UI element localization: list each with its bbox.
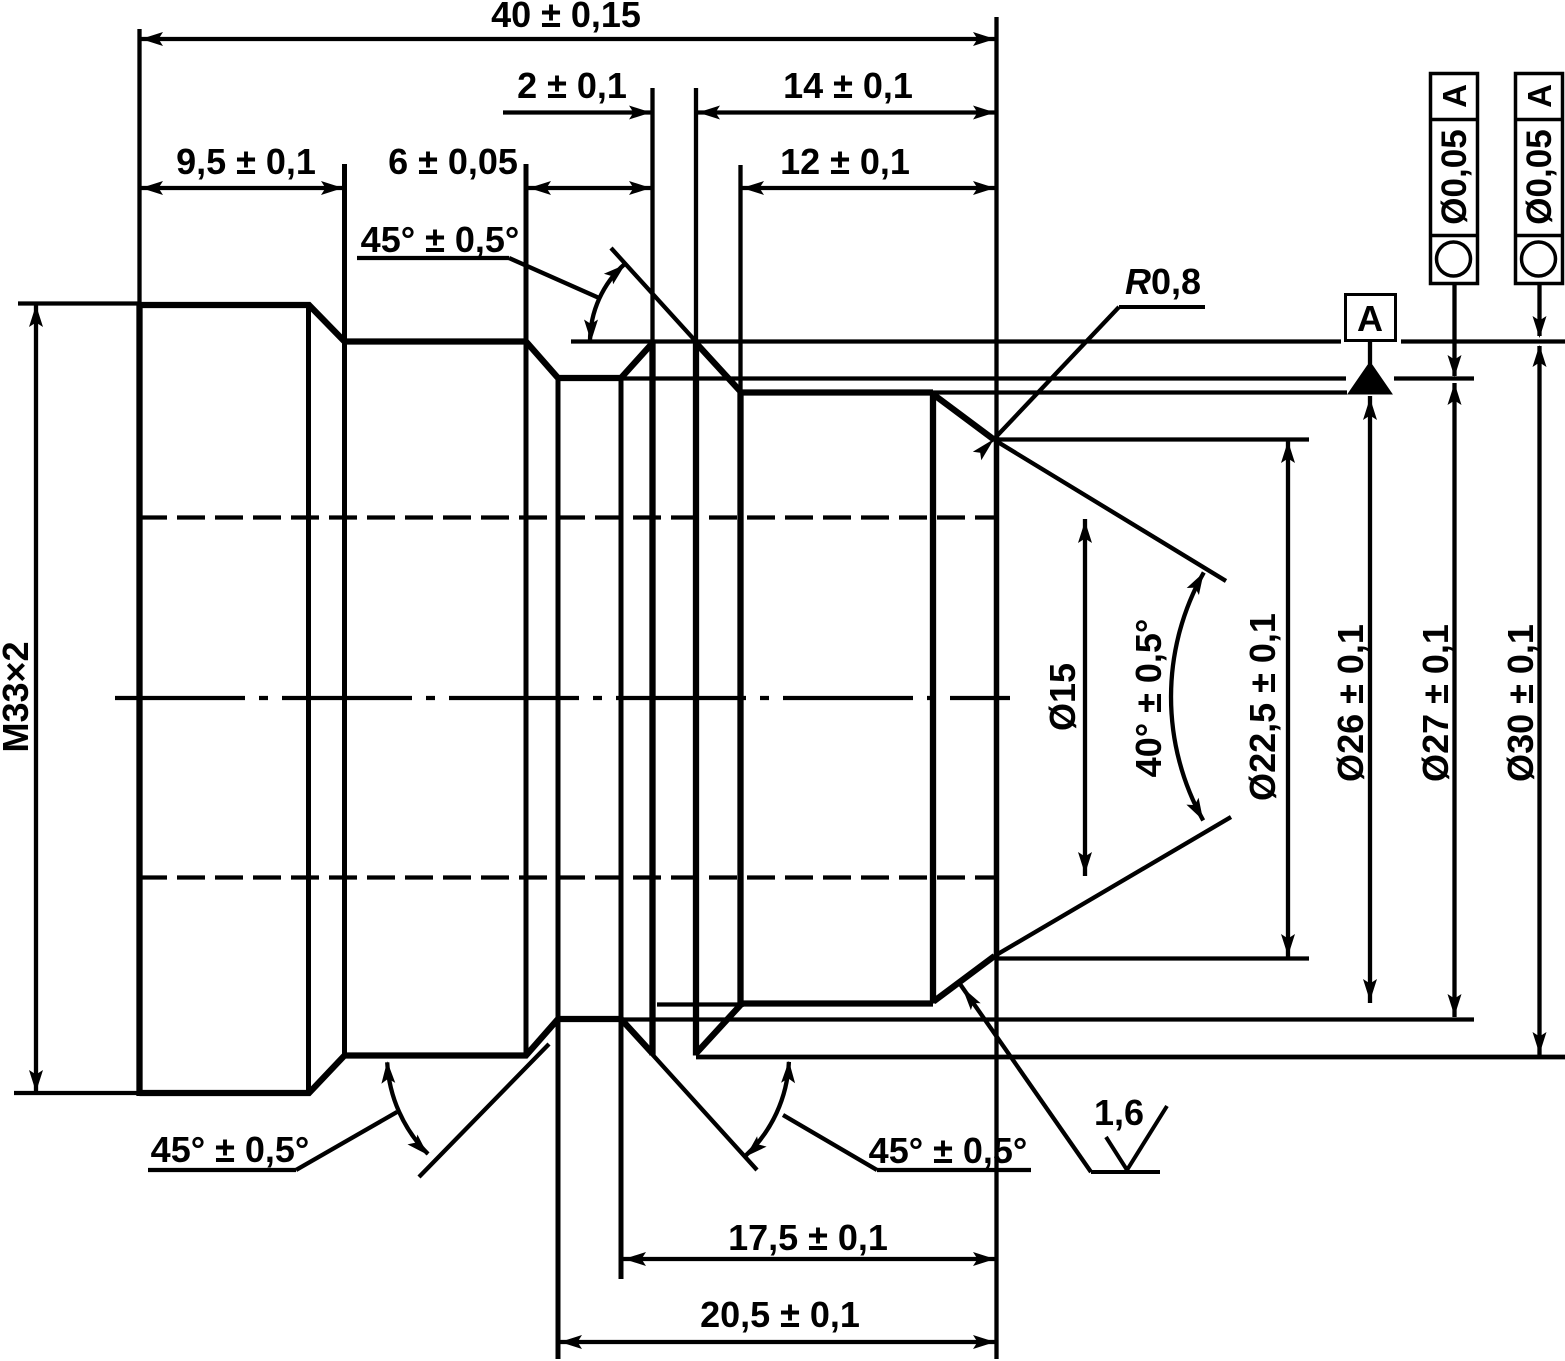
chamfer groove wall to Ø26 (top) (696, 343, 741, 392)
svg-text:Ø0,05: Ø0,05 (1435, 129, 1474, 224)
dim line 17,5±0,1 (622, 1257, 997, 1261)
roughness leader diagonal (960, 984, 1091, 1172)
edge circle Ø27 groove start + extension for 20,5 dim (556, 378, 561, 1359)
frame1 divider A cell (1431, 118, 1478, 122)
arrow Ø15 bottom (1078, 852, 1092, 874)
svg-text:M33×2: M33×2 (0, 641, 36, 752)
svg-text:45° ± 0,5°: 45° ± 0,5° (361, 219, 520, 260)
svg-text:Ø0,05: Ø0,05 (1520, 129, 1559, 224)
Ø27 extension line at dim (1394, 376, 1474, 380)
frame2 circular runout symbol (1522, 242, 1556, 276)
Ø27 extension line right (622, 376, 1346, 380)
extension x=996.5 upper (994, 17, 998, 437)
Ø26 cylinder bottom edge (741, 1000, 934, 1006)
svg-text:20,5 ± 0,1: 20,5 ± 0,1 (700, 1294, 860, 1335)
leader underline 45° bottom-middle label (877, 1168, 1031, 1172)
arrow runout frame 2 down (1533, 316, 1547, 338)
arrow 12-dim left (742, 181, 764, 195)
svg-text:A: A (1357, 298, 1383, 339)
arc 45° bottom-left dim (387, 1062, 428, 1154)
edge circle cylinder-cone transition (930, 393, 936, 1004)
cone angle construction line top (995, 440, 1227, 581)
svg-text:Ø26 ± 0,1: Ø26 ± 0,1 (1330, 624, 1371, 782)
45° construction diagonal bottom-middle (groove chamfer extended) (622, 1021, 757, 1170)
leader runout frame 1 (1452, 284, 1456, 376)
arrow M33 bottom (29, 1070, 43, 1092)
arrow 40° arc bottom (1186, 798, 1203, 821)
datum stem (1368, 341, 1372, 364)
arrow arc top (touch diagonal) (604, 265, 625, 285)
extension x=652.5 up (2/6 dims) (650, 88, 654, 341)
arc 45° bottom-middle dim (746, 1062, 789, 1156)
edge circle Ø30 end + extension for 6 dim (524, 164, 529, 1056)
arrow 12-dim right (973, 181, 995, 195)
Ø30 extension line right of datum box (1401, 339, 1565, 343)
arrow arc down (touch diagonal) (408, 1135, 429, 1156)
edge circle: thread chamfer start (Ø33) (306, 305, 311, 1093)
edge circle chamfer end Ø30 + extension for 9,5 dim (342, 164, 347, 1056)
dim line Ø22,5 (1286, 440, 1290, 957)
svg-text:9,5 ± 0,1: 9,5 ± 0,1 (176, 141, 316, 182)
extension x=696 up (2/14 dims) (694, 88, 698, 341)
arrow Ø22,5 bottom (1281, 934, 1295, 956)
cone face top edge (934, 395, 995, 441)
dim line 9,5±0,1 (140, 186, 345, 190)
frame2 divider symbol cell (1516, 234, 1563, 238)
arc 45° top dim (590, 264, 625, 342)
arrow 14-dim right (973, 106, 995, 120)
svg-text:R0,8: R0,8 (1125, 261, 1201, 302)
runout tolerance frame 2 (1516, 74, 1563, 284)
part outline bottom (mirror) (140, 1019, 653, 1093)
M33 extension top (18, 301, 139, 305)
frame1 divider symbol cell (1431, 234, 1478, 238)
arrow arc up (touch Ø30 edge) (381, 1061, 395, 1083)
arrow 40-dim left (141, 32, 163, 46)
arrow 6-dim right (629, 181, 651, 195)
M33 extension bottom (14, 1091, 139, 1095)
svg-text:Ø30 ± 0,1: Ø30 ± 0,1 (1500, 624, 1541, 782)
arrow Ø26 top (1363, 398, 1377, 420)
svg-text:17,5 ± 0,1: 17,5 ± 0,1 (728, 1217, 888, 1258)
roughness leader shoulder (1091, 1170, 1160, 1174)
svg-text:40° ± 0,5°: 40° ± 0,5° (1128, 619, 1169, 778)
left end face edge (136, 302, 142, 1096)
cone angle construction line bottom (995, 817, 1232, 956)
svg-text:Ø27 ± 0,1: Ø27 ± 0,1 (1415, 624, 1456, 782)
arrow 2-dim right (629, 106, 651, 120)
arrow arc down (touch diagonal) (746, 1136, 767, 1156)
dim line 6±0,05 (527, 186, 652, 190)
arrow 9,5-dim left (141, 181, 163, 195)
svg-text:12 ± 0,1: 12 ± 0,1 (780, 141, 910, 182)
Ø22,5 extension bottom (996, 956, 1309, 960)
right end face edge (994, 437, 1000, 959)
arrow 17,5 left (624, 1252, 646, 1266)
dim line 12±0,1 (741, 186, 997, 190)
arrow 20,5 left (560, 1335, 582, 1349)
edge circle Ø27 groove end + extension for 17,5 dim (619, 378, 624, 1279)
svg-text:A: A (1436, 84, 1473, 108)
Ø26 cylinder top edge (741, 389, 934, 395)
Ø15 hole hidden line top (139, 515, 996, 519)
Ø26 bottom short extension (657, 1002, 740, 1006)
arrow Ø26 bottom (1363, 979, 1377, 1001)
arrow 9,5-dim right (321, 181, 343, 195)
arrow M33 top (29, 305, 43, 327)
datum filled triangle (1348, 362, 1392, 394)
dim line 2±0,1 (503, 110, 652, 114)
dim line 14±0,1 (696, 110, 997, 114)
arrow Ø22,5 top (1281, 441, 1295, 463)
R0,8 arrowhead at cone/chamfer intersection (973, 439, 994, 460)
edge circle at Ø26 section start (737, 390, 743, 1008)
45° construction diagonal bottom-left (Ø30 chamfer extended) (419, 1044, 549, 1177)
svg-text:45° ± 0,5°: 45° ± 0,5° (869, 1130, 1028, 1171)
Ø22,5 extension top (996, 437, 1309, 441)
arrow 14-dim left (698, 106, 720, 120)
svg-text:6 ± 0,05: 6 ± 0,05 (388, 141, 518, 182)
Ø30 extension bottom (696, 1055, 1565, 1060)
dim line 20,5±0,1 (559, 1340, 997, 1344)
arrow 6-dim left (529, 181, 551, 195)
leader underline 45° bottom-left label (148, 1168, 296, 1172)
groove left wall edge circle (649, 341, 655, 1056)
svg-text:40 ± 0,15: 40 ± 0,15 (491, 0, 641, 35)
Ø30 extension line right (to datum box) (571, 339, 1341, 343)
dim line Ø15 (1083, 519, 1087, 876)
leader 45° top label to arc (509, 258, 598, 298)
part centerline (axis) (115, 696, 1010, 700)
arrow Ø15 top (1078, 521, 1092, 543)
extension x=740.5 up (12 dim) (738, 165, 742, 389)
frame2 divider A cell (1516, 118, 1563, 122)
Ø15 hole hidden line bottom (139, 875, 996, 879)
arrow runout frame 1 down (1448, 355, 1462, 377)
roughness check symbol (1106, 1106, 1167, 1170)
svg-text:Ø15: Ø15 (1042, 663, 1083, 731)
arrow arc up (touch Ø30 bottom line) (781, 1061, 795, 1083)
dim line Ø30 (1537, 346, 1541, 1055)
roughness leader arrowhead (962, 987, 981, 1010)
45° chamfer construction diagonal (groove wall chamfer extended) (611, 248, 740, 390)
svg-text:1,6: 1,6 (1094, 1092, 1144, 1133)
dim line M33×2 (34, 304, 38, 1094)
groove right wall edge circle (693, 341, 699, 1056)
arrow 40-dim right (973, 32, 995, 46)
runout tolerance frame 1 (1431, 74, 1478, 284)
svg-text:14 ± 0,1: 14 ± 0,1 (783, 65, 913, 106)
leader underline 45° top label (357, 256, 509, 260)
arrow Ø30 bottom (1533, 1032, 1547, 1054)
extension x=139.5 up to 40-dim (137, 29, 141, 302)
frame1 circular runout symbol (1437, 242, 1471, 276)
arrow Ø30 top (1533, 345, 1547, 367)
arrow Ø27 top (1448, 383, 1462, 405)
leader 45° bottom-left label to arc (296, 1112, 397, 1170)
arrow 17,5 right (973, 1252, 995, 1266)
arc 40° cone dim (1171, 572, 1204, 820)
part outline top: thread OD, chamfer, Ø30 collar, chamfer, Ø27 groove, chamfer up (140, 305, 653, 378)
extension x=996.5 lower (994, 959, 998, 1359)
datum A box (1346, 295, 1396, 341)
leader runout frame 2 (1537, 284, 1541, 336)
R0,8 leader diagonal (994, 307, 1119, 439)
arrow arc bottom (touch y=341.5) (584, 320, 598, 342)
leader 45° bottom-middle label to arc (783, 1115, 877, 1170)
svg-text:A: A (1521, 84, 1558, 108)
dim line Ø26 (1368, 396, 1372, 1003)
Ø27 extension bottom (622, 1017, 1474, 1021)
chamfer groove wall to Ø26 (bottom) (696, 1005, 741, 1054)
cone face bottom edge (934, 956, 995, 1002)
arrow 20,5 right (973, 1335, 995, 1349)
dim line 40±0,15 (140, 37, 997, 41)
Ø26 extension line right (933, 390, 1347, 394)
arrow 40° arc top (1187, 572, 1204, 595)
dim line Ø27 (1452, 383, 1456, 1017)
svg-text:45° ± 0,5°: 45° ± 0,5° (151, 1129, 310, 1170)
R0,8 leader shoulder (1119, 305, 1205, 309)
svg-text:Ø22,5 ± 0,1: Ø22,5 ± 0,1 (1242, 613, 1283, 801)
svg-text:2 ± 0,1: 2 ± 0,1 (517, 65, 627, 106)
arrow Ø27 bottom (1448, 994, 1462, 1016)
